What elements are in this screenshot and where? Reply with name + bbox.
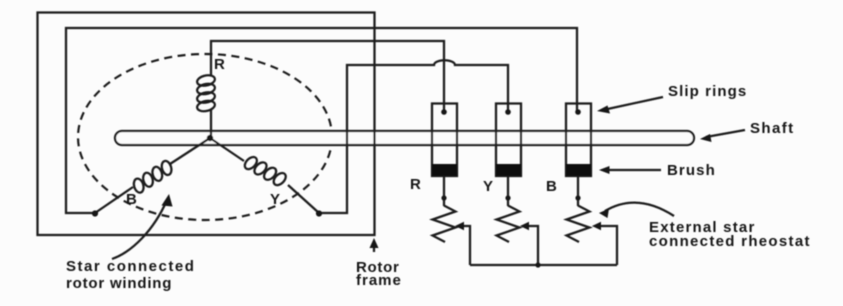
node below brush 1: [441, 195, 446, 200]
brush 2: [496, 164, 521, 176]
wire coil Y to node Y: [288, 185, 319, 213]
node slip ring 1 terminal: [441, 109, 447, 115]
svg-text:R: R: [410, 176, 421, 193]
wire brush 3 to rheostat 3: [577, 176, 579, 206]
svg-text:Brush: Brush: [667, 162, 716, 179]
node slip ring 2 terminal: [505, 109, 511, 115]
brush label arrow: [606, 169, 661, 171]
svg-text:B: B: [546, 178, 557, 195]
wire star point to coil Y: [210, 138, 244, 161]
wire coil B to node B: [95, 187, 133, 213]
node Y: [316, 210, 322, 216]
wire star point to coil B: [170, 138, 210, 164]
junction on bus: [535, 262, 540, 267]
node below brush 3: [575, 195, 580, 200]
arrowhead rheostat 3 wiper: [592, 222, 601, 230]
wire brush 2 to rheostat 2: [507, 176, 509, 206]
star bus wire of external rheostat: [470, 264, 617, 266]
arrowhead slip rings: [597, 106, 610, 114]
svg-text:rotor winding: rotor winding: [66, 275, 172, 292]
coil Y (diagonal, 4 loops): [241, 153, 289, 190]
rheostat 1 wiper wire: [462, 226, 470, 265]
rheostat 1 zigzag: [433, 206, 456, 243]
slip rings label arrow: [603, 97, 663, 110]
shaft: [115, 131, 694, 145]
arrowhead rotor frame: [370, 238, 379, 248]
svg-text:Slip rings: Slip rings: [668, 83, 747, 100]
arrowhead rheostat 2 wiper: [520, 222, 529, 230]
wire B phase: from winding end left, up, across top, down to slip ring 3: [66, 28, 577, 213]
svg-text:connected rheostat: connected rheostat: [649, 233, 811, 250]
wire Y phase with jump over R wire, down to slip ring 2: [319, 60, 508, 213]
rheostat 2 zigzag: [497, 206, 520, 243]
slip ring 2: [496, 104, 521, 177]
slip ring 1: [432, 104, 457, 177]
rheostat 3 zigzag: [567, 206, 590, 243]
svg-text:B: B: [126, 191, 137, 208]
svg-text:Y: Y: [270, 191, 280, 208]
slip ring 3: [566, 104, 591, 177]
rotor winding boundary dashed ellipse: [78, 54, 332, 220]
arrowhead external rheostat: [599, 209, 609, 219]
svg-text:R: R: [214, 56, 225, 73]
svg-text:Star connected: Star connected: [66, 258, 195, 275]
node star point: [207, 135, 213, 141]
node below brush 2: [505, 195, 510, 200]
external rheostat curved arrow: [605, 203, 674, 216]
coil R (vertical, 4 loops): [196, 74, 216, 113]
brush 3: [566, 164, 591, 176]
shaft label arrow: [706, 130, 745, 137]
star winding curved arrow: [112, 200, 167, 259]
coil B (diagonal, 4 loops): [129, 158, 176, 196]
rotor frame label arrow: [373, 243, 375, 252]
wire brush 1 to rheostat 1: [443, 176, 445, 206]
svg-text:Shaft: Shaft: [750, 120, 795, 137]
arrowhead star winding: [162, 194, 173, 207]
node slip ring 3 terminal: [575, 109, 581, 115]
rheostat 3 wiper wire: [599, 226, 617, 265]
wire R phase: from coil top, across, down to slip ring 1: [211, 41, 444, 112]
svg-text:Y: Y: [483, 178, 493, 195]
rheostat 2 wiper wire: [527, 226, 538, 265]
arrowhead shaft: [700, 134, 712, 142]
arrowhead brush: [599, 166, 610, 174]
brush 1: [432, 164, 457, 176]
node B: [92, 210, 98, 216]
rotor frame outer rectangle: [38, 13, 375, 236]
arrowhead rheostat 1 wiper: [455, 222, 464, 230]
wire from coil R to star point: [210, 109, 212, 138]
svg-text:frame: frame: [356, 272, 402, 289]
